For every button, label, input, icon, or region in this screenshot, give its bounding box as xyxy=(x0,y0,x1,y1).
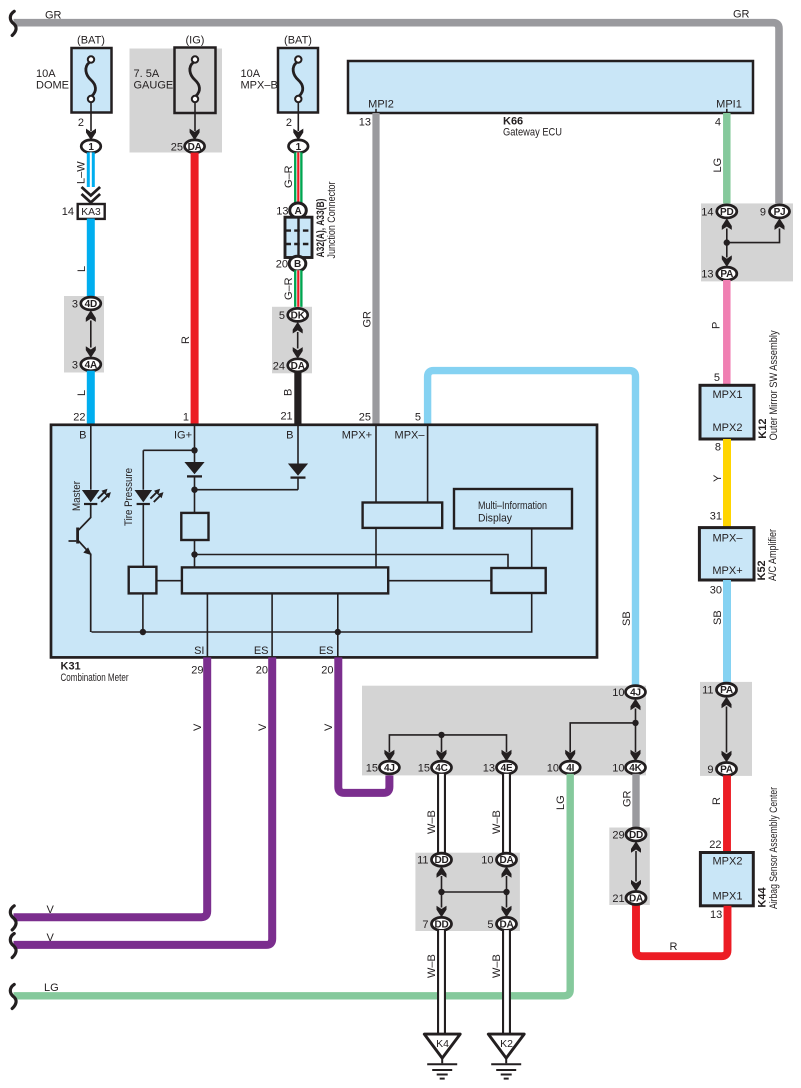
gray panel DD/DA center xyxy=(415,853,520,931)
arrow up into DD(29) xyxy=(631,841,641,853)
svg-text:4C: 4C xyxy=(435,763,447,774)
connector oval 1 (DOME) xyxy=(81,140,101,153)
svg-text:10: 10 xyxy=(612,763,624,775)
svg-text:DA: DA xyxy=(629,894,643,905)
svg-text:W–B: W–B xyxy=(426,954,438,978)
wire GR from 4K to DD(29) xyxy=(632,774,639,828)
svg-text:GR: GR xyxy=(362,311,374,328)
wire between PA(11) and PA(9) xyxy=(726,707,728,753)
arrow up into PA(11) xyxy=(722,697,732,709)
gray panel DK/DA xyxy=(272,307,312,374)
svg-text:K2: K2 xyxy=(500,1038,513,1050)
wire F1 to connector xyxy=(90,103,92,132)
svg-text:7. 5A: 7. 5A xyxy=(134,68,160,80)
svg-text:B: B xyxy=(283,389,295,396)
wire B (black) to K31 pin 21 xyxy=(294,372,301,425)
svg-text:20: 20 xyxy=(321,664,333,676)
svg-text:G–R: G–R xyxy=(283,165,295,188)
svg-text:2: 2 xyxy=(286,117,292,129)
svg-text:21: 21 xyxy=(612,893,624,905)
arrow down into 4E xyxy=(502,750,512,762)
svg-text:DD: DD xyxy=(629,830,643,841)
svg-text:25: 25 xyxy=(171,141,183,153)
continuation squiggle LG xyxy=(10,984,16,1008)
svg-text:GR: GR xyxy=(733,9,750,21)
svg-text:DA: DA xyxy=(188,142,202,153)
connector oval PD xyxy=(717,205,737,218)
node dot DD xyxy=(438,889,444,895)
svg-text:13: 13 xyxy=(483,763,495,775)
svg-text:Multi–Information: Multi–Information xyxy=(478,500,547,512)
connector oval DK xyxy=(288,308,308,321)
pin stub MPI2 xyxy=(375,109,377,113)
connector oval 4J (15) xyxy=(379,761,399,774)
arrow up into DD(11) xyxy=(437,866,447,878)
ground K2 symbol xyxy=(491,1058,521,1079)
svg-text:Gateway ECU: Gateway ECU xyxy=(503,127,562,139)
arrow up into PD xyxy=(722,218,732,230)
wire Tire LED down to box TB xyxy=(142,504,144,567)
fuse F3 10A MPX-B box xyxy=(278,48,318,113)
wire between DK and DA xyxy=(297,332,299,349)
connector oval PA (9) xyxy=(717,763,737,776)
arrow into oval DA (F2) xyxy=(190,129,200,141)
gray panel around GAUGE fuse xyxy=(130,49,223,153)
arrow down into PA(9) xyxy=(722,751,732,763)
connector oval DA (10) xyxy=(497,853,517,866)
svg-text:SB: SB xyxy=(712,610,724,625)
svg-text:11: 11 xyxy=(417,855,428,867)
svg-text:GAUGE: GAUGE xyxy=(134,80,174,92)
svg-text:PJ: PJ xyxy=(774,207,786,218)
svg-text:20: 20 xyxy=(256,664,268,676)
svg-text:2: 2 xyxy=(78,117,84,129)
arrow down into 4C xyxy=(437,750,447,762)
svg-text:PD: PD xyxy=(720,207,734,218)
diode D1 (under IG+) xyxy=(184,462,204,476)
arrow up into DK xyxy=(293,322,303,334)
svg-text:9: 9 xyxy=(760,206,766,218)
svg-text:5: 5 xyxy=(714,372,720,384)
wire W-B from DD(7) to ground K4 xyxy=(437,930,446,1035)
wire F3 to connector xyxy=(297,103,299,132)
svg-text:5: 5 xyxy=(415,411,421,423)
svg-text:DOME: DOME xyxy=(36,80,69,92)
svg-text:MPX1: MPX1 xyxy=(713,891,743,903)
arrow down into PA xyxy=(722,255,732,267)
svg-text:31: 31 xyxy=(710,511,722,523)
node dot DA xyxy=(503,889,509,895)
svg-text:21: 21 xyxy=(280,410,292,422)
arrow down into 4A xyxy=(86,346,96,358)
svg-text:V: V xyxy=(323,723,335,731)
svg-text:DD: DD xyxy=(434,919,448,930)
wire L-W (blue with white stripe) xyxy=(87,152,95,187)
svg-text:Airbag Sensor Assembly Center: Airbag Sensor Assembly Center xyxy=(768,787,780,909)
svg-text:29: 29 xyxy=(612,830,624,842)
connector circle A xyxy=(290,203,307,218)
transistor Q (base bar, base stub, emitter w/ arrow) xyxy=(69,528,92,556)
wire TB down to bottom bus xyxy=(142,593,144,632)
arrow up into DA(10) xyxy=(502,866,512,878)
svg-text:V: V xyxy=(257,723,269,731)
fuse F2 7.5A GAUGE box xyxy=(175,48,216,114)
wire W-B from DA(5) to ground K2 xyxy=(502,930,511,1035)
svg-text:13: 13 xyxy=(701,269,713,281)
svg-text:MPX1: MPX1 xyxy=(713,389,743,401)
svg-text:MPI1: MPI1 xyxy=(716,99,742,111)
svg-text:5: 5 xyxy=(487,919,493,931)
node dot 4J branch xyxy=(632,720,638,726)
svg-text:PA: PA xyxy=(720,765,733,776)
svg-text:Outer Mirror SW Assembly: Outer Mirror SW Assembly xyxy=(768,330,780,440)
svg-text:4J: 4J xyxy=(630,688,641,699)
svg-text:4A: 4A xyxy=(85,360,97,371)
arrow up into PJ xyxy=(775,218,785,230)
box TB (tire gauge) xyxy=(129,567,157,594)
wire pin22 to Master LED xyxy=(90,426,92,490)
fuse F1 10A DOME box xyxy=(72,48,112,113)
svg-text:SI: SI xyxy=(194,645,204,657)
svg-text:10: 10 xyxy=(481,855,493,867)
wire P (pink) PA to K12 xyxy=(723,280,731,385)
svg-text:L: L xyxy=(76,266,88,272)
arrow into oval 1 (F1) xyxy=(86,129,96,141)
LED Tire Pressure xyxy=(135,489,164,504)
wire Y (yellow) K12 to K52 xyxy=(723,439,731,528)
connector oval 4C xyxy=(432,761,452,774)
connector oval PJ xyxy=(770,205,790,218)
svg-text:MPX–: MPX– xyxy=(395,430,426,442)
gray panel 4D/4A xyxy=(64,296,104,373)
box XB (MPX transceiver) xyxy=(363,503,443,528)
ECU K31 Combination Meter box xyxy=(51,425,597,658)
svg-text:10: 10 xyxy=(612,687,624,699)
svg-text:4I: 4I xyxy=(566,763,574,774)
wire emitter down to bottom bus xyxy=(90,554,92,633)
wire MPX- down to XB xyxy=(427,426,429,503)
svg-text:10: 10 xyxy=(547,763,559,775)
svg-text:13: 13 xyxy=(710,909,722,921)
svg-text:Display: Display xyxy=(478,512,512,524)
svg-text:SB: SB xyxy=(621,611,633,626)
svg-text:15: 15 xyxy=(418,763,430,775)
fuse F2 symbol xyxy=(190,56,200,102)
junction wires DD/DA xyxy=(442,876,507,908)
svg-text:4: 4 xyxy=(715,117,721,129)
wire LB to RB xyxy=(388,580,491,582)
wire branch to RB (top run) xyxy=(195,555,509,569)
gray panel center connectors xyxy=(362,686,646,776)
wire LED to transistor collector xyxy=(79,504,91,530)
connector oval DA (5) xyxy=(497,917,517,930)
continuation squiggle top left xyxy=(10,11,16,35)
svg-text:GR: GR xyxy=(622,790,634,807)
wire SQ1 down to LB xyxy=(194,540,196,567)
svg-text:B: B xyxy=(294,259,301,270)
box RB (right block) xyxy=(491,568,545,593)
junction wires center-left group xyxy=(389,735,506,753)
wire pin21 down to D2 xyxy=(297,426,299,464)
svg-text:10A: 10A xyxy=(36,68,56,80)
arrow down into DA xyxy=(293,347,303,359)
svg-text:MPX–: MPX– xyxy=(713,533,744,545)
diode D2 (under B 21) xyxy=(288,464,308,478)
shield chevrons on L-W xyxy=(82,187,101,203)
svg-text:(BAT): (BAT) xyxy=(284,35,312,47)
svg-text:MPX–B: MPX–B xyxy=(241,80,278,92)
wire between 4D and 4A xyxy=(90,321,92,348)
svg-text:W–B: W–B xyxy=(426,810,438,834)
svg-text:R: R xyxy=(669,941,677,953)
svg-text:K31: K31 xyxy=(61,661,81,673)
svg-text:L: L xyxy=(76,390,88,396)
wire SB from K31 MPX- up and over to 4J xyxy=(428,371,636,685)
fuse F3 symbol xyxy=(293,56,303,102)
svg-text:MPX2: MPX2 xyxy=(713,856,743,868)
junction wires PD/PJ/PA xyxy=(727,229,780,258)
junction connector A32(A),A33(B) box xyxy=(285,217,312,257)
svg-text:(BAT): (BAT) xyxy=(77,35,105,47)
gray panel PD/PJ/PA xyxy=(701,203,793,281)
svg-text:(IG): (IG) xyxy=(186,35,205,47)
svg-text:7: 7 xyxy=(422,919,428,931)
connector oval DD (7) xyxy=(432,917,452,930)
wire ES pin line 1 xyxy=(271,593,273,656)
ECU K44 Airbag Sensor Assembly Center box xyxy=(700,853,753,906)
wire between DD(29) and DA(21) xyxy=(635,851,637,882)
wire MPX+ down to XB xyxy=(375,426,377,503)
wire TB to LB xyxy=(156,580,182,582)
pin stub MPI1 xyxy=(726,109,728,113)
svg-text:KA3: KA3 xyxy=(81,206,101,218)
svg-text:1: 1 xyxy=(183,411,189,423)
arrow down into 4I xyxy=(565,750,575,762)
wire LG from MPI1 to PD xyxy=(723,113,731,205)
connector circle B xyxy=(289,256,306,271)
svg-text:MPX+: MPX+ xyxy=(712,565,742,577)
svg-text:DA: DA xyxy=(499,855,513,866)
svg-text:MPI2: MPI2 xyxy=(368,99,394,111)
svg-text:5: 5 xyxy=(279,310,285,322)
arrow down into DA(5) xyxy=(502,906,512,918)
ECU K12 Outer Mirror SW Assembly box xyxy=(700,385,754,439)
wire branch D1-D2 xyxy=(195,489,299,491)
svg-text:Junction Connector: Junction Connector xyxy=(326,181,338,258)
wire ES pin line 2 xyxy=(337,593,339,656)
wire L lower xyxy=(87,371,95,425)
svg-text:V: V xyxy=(192,723,204,731)
wire pin1 IG+ down xyxy=(194,426,196,462)
connector oval PA (13) xyxy=(717,267,737,280)
svg-text:K44: K44 xyxy=(757,887,769,908)
svg-text:MPX2: MPX2 xyxy=(713,422,743,434)
wire D2 to branch xyxy=(297,478,299,490)
svg-text:Tire Pressure: Tire Pressure xyxy=(123,468,135,526)
svg-text:Y: Y xyxy=(712,474,724,482)
box LB (main long block) xyxy=(182,567,388,593)
node dot below SQ1 xyxy=(191,551,197,557)
svg-text:22: 22 xyxy=(709,839,721,851)
svg-text:Master: Master xyxy=(71,481,83,511)
gray panel DD/DA right xyxy=(609,828,650,906)
svg-text:IG+: IG+ xyxy=(174,430,192,442)
svg-text:W–B: W–B xyxy=(491,954,503,978)
wire SI pin line xyxy=(206,593,208,656)
connector oval 1 (MPX-B) xyxy=(289,140,309,153)
box MID Multi-Information Display xyxy=(454,489,572,528)
svg-text:1: 1 xyxy=(88,142,94,153)
wire SB K52 to PA xyxy=(723,580,731,683)
svg-text:4J: 4J xyxy=(384,763,395,774)
junction dot xyxy=(724,239,730,245)
svg-text:R: R xyxy=(711,797,723,805)
connector oval DD (29) xyxy=(626,828,646,841)
svg-text:22: 22 xyxy=(73,411,85,423)
node dot under D1 xyxy=(191,487,197,493)
svg-text:PA: PA xyxy=(720,685,733,696)
connector oval 4I xyxy=(560,761,580,774)
ECU K52 A/C Amplifier box xyxy=(699,528,754,580)
connector oval 4A xyxy=(81,358,101,371)
node dot TB/bus xyxy=(140,629,146,635)
node dot 4C branch xyxy=(438,732,444,738)
svg-text:A/C Amplifier: A/C Amplifier xyxy=(767,529,779,581)
connector oval DA (24) xyxy=(288,359,308,372)
connector oval 4D xyxy=(81,297,101,310)
svg-text:DA: DA xyxy=(291,361,305,372)
ground K2 triangle xyxy=(488,1034,524,1058)
svg-text:K4: K4 xyxy=(436,1038,449,1050)
continuation squiggle V lower xyxy=(10,934,16,958)
arrow down into 4J (15) xyxy=(384,750,394,762)
connector oval DA (25) xyxy=(185,140,205,153)
wire R (red) PA to K44 xyxy=(723,775,731,852)
Gateway ECU K66 box xyxy=(348,61,753,113)
svg-text:LG: LG xyxy=(44,982,59,994)
ground K4 triangle xyxy=(424,1034,460,1058)
svg-text:DD: DD xyxy=(434,855,448,866)
svg-text:V: V xyxy=(47,904,55,916)
svg-text:R: R xyxy=(180,336,192,344)
arrow down into 4K xyxy=(631,750,641,762)
svg-text:G–R: G–R xyxy=(283,277,295,300)
svg-text:ES: ES xyxy=(319,645,334,657)
svg-text:20: 20 xyxy=(276,259,288,271)
svg-text:Combination Meter: Combination Meter xyxy=(61,672,129,684)
svg-text:DA: DA xyxy=(499,919,513,930)
wire L upper xyxy=(87,219,95,298)
arrow down into DD(7) xyxy=(437,906,447,918)
svg-text:MPX+: MPX+ xyxy=(342,430,372,442)
wire G-R upper (green w/ red stripe) xyxy=(294,152,303,204)
svg-text:15: 15 xyxy=(366,763,378,775)
svg-text:13: 13 xyxy=(359,117,371,129)
arrow into oval 1 (F3) xyxy=(293,129,303,141)
wire D1 to branch node xyxy=(194,476,196,513)
wire R from DA(25) to K31 pin 1 xyxy=(191,153,199,425)
wire MID down to RB xyxy=(531,528,533,568)
wire W-B from 4C to DD(11) xyxy=(437,774,446,854)
svg-text:29: 29 xyxy=(191,664,203,676)
wire LG from 4I to left edge xyxy=(14,774,571,996)
box SQ1 (regulator) xyxy=(181,513,208,540)
node dot IG+ branch xyxy=(191,447,197,453)
wire V (purple) ES 20 to 4J xyxy=(338,657,389,793)
svg-text:DK: DK xyxy=(291,310,306,321)
node dot bus/ES xyxy=(335,629,341,635)
connector oval 4K xyxy=(626,761,646,774)
connector oval DA (21) xyxy=(626,892,646,905)
connector KA3 box xyxy=(78,204,105,219)
svg-text:L–W: L–W xyxy=(76,161,88,184)
arrow up into 4D xyxy=(86,310,96,322)
svg-text:B: B xyxy=(286,430,293,442)
svg-text:A: A xyxy=(294,206,301,217)
ground K4 symbol xyxy=(427,1058,457,1079)
connector oval 4J (10, top) xyxy=(626,686,646,699)
wire F2 to connector xyxy=(194,103,196,132)
svg-text:30: 30 xyxy=(710,585,722,597)
wire XB down to LB xyxy=(375,528,377,568)
svg-text:P: P xyxy=(711,322,723,329)
svg-text:W–B: W–B xyxy=(491,810,503,834)
svg-text:8: 8 xyxy=(715,442,721,454)
wire V (purple) ES 20 to left edge xyxy=(14,657,273,945)
svg-text:10A: 10A xyxy=(241,68,261,80)
wire bottom bus xyxy=(92,593,532,632)
svg-text:24: 24 xyxy=(273,360,285,372)
connector oval 4E xyxy=(497,761,517,774)
LED Master (triangle, bar, emission arrows) xyxy=(82,489,111,504)
wire G-R lower xyxy=(294,270,303,308)
svg-text:1: 1 xyxy=(296,142,302,153)
svg-text:3: 3 xyxy=(72,299,78,311)
svg-text:ES: ES xyxy=(254,645,269,657)
svg-text:13: 13 xyxy=(276,205,288,217)
svg-text:LG: LG xyxy=(555,795,567,810)
wire GR top horizontal with right drop to PJ xyxy=(14,23,780,205)
svg-text:B: B xyxy=(79,430,86,442)
wire R U-shape K44 pin13 to DA(21) xyxy=(636,904,728,956)
continuation squiggle V upper xyxy=(10,906,16,930)
svg-text:4D: 4D xyxy=(85,299,97,310)
fuse F1 symbol xyxy=(86,56,96,102)
svg-text:GR: GR xyxy=(45,10,62,22)
gray panel PA/PA right xyxy=(700,682,752,776)
svg-text:4E: 4E xyxy=(501,763,513,774)
svg-text:11: 11 xyxy=(702,685,713,697)
arrow up into 4J top xyxy=(631,699,641,711)
svg-text:14: 14 xyxy=(701,206,713,218)
arrow down into DA(21) xyxy=(631,880,641,892)
wire V (purple) SI 29 to left edge xyxy=(14,657,208,917)
connector oval DD (11) xyxy=(432,853,452,866)
wire GR from MPI2 to K31 pin 25 xyxy=(372,113,379,425)
svg-text:PA: PA xyxy=(720,269,733,280)
wire branch to Tire Pressure LED xyxy=(143,449,194,451)
svg-text:14: 14 xyxy=(62,206,74,218)
junction wires center-right group xyxy=(570,709,635,753)
svg-text:LG: LG xyxy=(712,158,724,173)
svg-text:V: V xyxy=(47,932,55,944)
connector oval PA (11) xyxy=(717,683,737,696)
svg-text:4K: 4K xyxy=(629,763,642,774)
svg-text:25: 25 xyxy=(359,411,371,423)
svg-text:3: 3 xyxy=(72,359,78,371)
svg-text:9: 9 xyxy=(707,764,713,776)
wire W-B from 4E to DA(10) xyxy=(502,774,511,854)
